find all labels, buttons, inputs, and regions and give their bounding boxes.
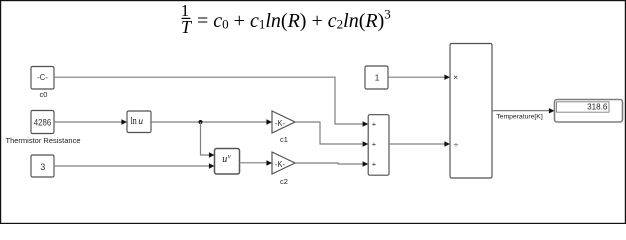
svg-text:u: u (222, 154, 227, 165)
svg-text:÷: ÷ (454, 139, 459, 149)
gain block c2 (-K-) (272, 152, 295, 174)
constant block 4286 (31, 111, 54, 134)
constant block -C- (c0) (31, 67, 54, 90)
title formula 1/T = c0 + c1 ln(R) + c2 ln(R)^3 (181, 1, 391, 37)
math function block u^v (215, 149, 240, 175)
svg-text:+: + (372, 140, 377, 149)
wire: sum to divide input (389, 143, 445, 145)
svg-text:c0: c0 (40, 90, 48, 99)
wire: gain c2 to sum input3 (295, 163, 363, 164)
svg-text:u: u (138, 116, 143, 127)
sum block (368, 115, 389, 176)
svg-text:Thermistor Resistance: Thermistor Resistance (5, 136, 80, 145)
wire: divide to display, Temperature[K] (492, 110, 549, 112)
gain block c1 (-K-) (272, 111, 295, 133)
svg-text:Temperature[K]: Temperature[K] (496, 113, 543, 120)
svg-text:-K-: -K- (275, 119, 286, 128)
svg-text:ln: ln (131, 116, 137, 127)
divide block (450, 44, 492, 179)
junction node (199, 120, 203, 124)
svg-text:1: 1 (375, 73, 380, 83)
wire: ln u to gain c1 (151, 121, 267, 123)
display block 318.6 (555, 100, 623, 123)
math function block ln u (127, 111, 151, 133)
svg-text:3: 3 (40, 162, 45, 172)
svg-text:c1: c1 (280, 135, 288, 144)
wire: gain c1 to sum input2 (295, 122, 363, 144)
wire: u^v to gain c2 (240, 162, 267, 164)
svg-text:4286: 4286 (34, 117, 52, 127)
wire: junction down to u^v input1 (201, 122, 210, 155)
wire: 4286 to ln u (54, 121, 122, 123)
svg-text:-C-: -C- (37, 72, 48, 82)
wire: c0 to sum input1 (54, 77, 363, 124)
svg-text:-K-: -K- (275, 160, 286, 169)
wire: 3 to u^v input2 (54, 165, 209, 167)
constant block 1 (365, 66, 388, 89)
svg-text:+: + (372, 160, 377, 169)
svg-text:×: × (453, 72, 458, 82)
constant block 3 (31, 155, 54, 177)
svg-text:c2: c2 (280, 177, 288, 186)
wire: 1 to divide x input (388, 76, 445, 78)
svg-text:+: + (372, 120, 377, 129)
svg-text:318.6: 318.6 (587, 103, 608, 112)
